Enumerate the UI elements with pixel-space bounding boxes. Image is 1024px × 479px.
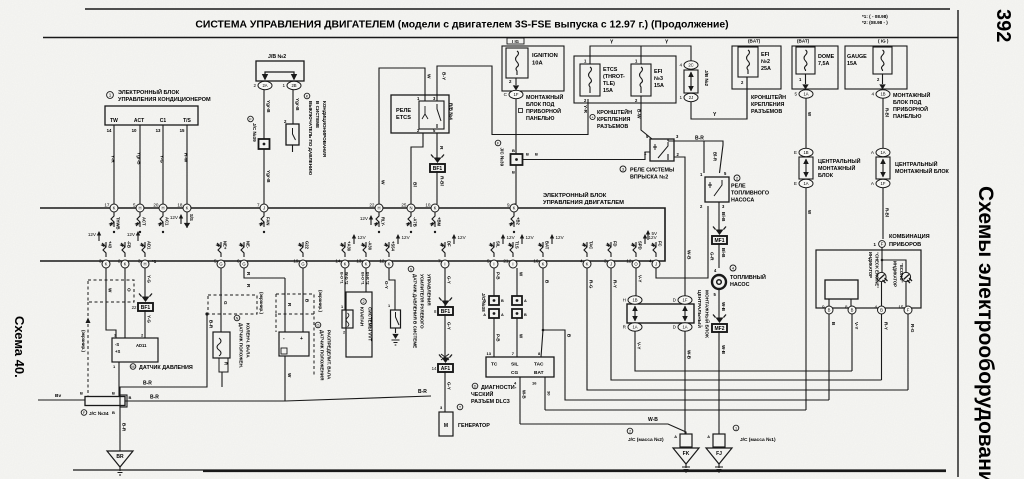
svg-text:BAT: BAT [534, 370, 544, 376]
IG tag [507, 38, 524, 44]
junction J/C No39 (left) [259, 139, 270, 149]
svg-text:J: J [263, 206, 265, 211]
svg-text:12V: 12V [526, 235, 535, 240]
svg-text:РЕЛЕ: РЕЛЕ [396, 108, 411, 114]
svg-text:1B: 1B [880, 92, 885, 97]
svg-text:A: A [524, 299, 527, 303]
svg-text:IGNITION: IGNITION [532, 53, 558, 59]
label J/C No39 (ignition) [495, 140, 501, 146]
svg-text:“ECONO”: “ECONO” [899, 263, 904, 283]
page top rule [85, 8, 950, 10]
svg-text:Y-G: Y-G [147, 315, 152, 323]
svg-text:8: 8 [845, 305, 848, 310]
A/C amplifier box [105, 106, 198, 125]
A/C amplifier label [107, 92, 114, 99]
DLC3 box [486, 357, 554, 377]
svg-text:B-R: B-R [695, 136, 704, 142]
svg-text:Ygr-B: Ygr-B [266, 170, 271, 183]
shield box crank sensor [208, 295, 257, 314]
fusible link MF1 [712, 236, 727, 244]
svg-text:1: 1 [388, 304, 390, 308]
svg-text:БЛОК: БЛОК [818, 173, 834, 179]
svg-text:W-G *2: W-G *2 [345, 272, 349, 284]
wire P-B dlc [493, 268, 495, 296]
svg-text:СИСТЕМА УПРАВЛЕНИЯ ДВИГАТЕЛЕМ: СИСТЕМА УПРАВЛЕНИЯ ДВИГАТЕЛЕМ (модели с … [195, 20, 728, 31]
svg-text:J/C №39: J/C №39 [252, 123, 257, 142]
wire B-W relay2 out [674, 157, 685, 296]
svg-text:Y-R: Y-R [582, 105, 588, 114]
svg-text:УСИЛИТЕЛЯ РУЛЕВОГО: УСИЛИТЕЛЯ РУЛЕВОГО [420, 274, 425, 329]
svg-text:R/B №4: R/B №4 [449, 103, 454, 120]
ground (left B-R) [107, 451, 133, 467]
svg-text:TLE): TLE) [603, 81, 615, 87]
wire G-Y ps [389, 268, 395, 310]
connector 4(2C) [679, 61, 698, 69]
central block mid box [627, 304, 694, 323]
svg-text:BR: BR [116, 454, 124, 460]
connector 5(1A) [794, 90, 813, 98]
svg-text:НАСОСА: НАСОСА [731, 198, 754, 204]
svg-text:B: B [524, 313, 527, 317]
wire W-B ground run [520, 424, 686, 434]
label J/C No39 (left) [248, 116, 254, 122]
cluster pin 1F [879, 241, 886, 248]
svg-text:A: A [707, 435, 710, 439]
svg-text:2: 2 [253, 83, 256, 88]
svg-text:РАЗЪЕМОВ: РАЗЪЕМОВ [751, 109, 782, 115]
svg-text:B: B [880, 308, 883, 313]
cluster box [816, 250, 921, 308]
svg-text:1A: 1A [880, 150, 885, 155]
svg-text:C1: C1 [160, 118, 167, 124]
wire W-B pump 2 [718, 331, 720, 434]
svg-text:J: J [610, 262, 612, 267]
wire W dlc [516, 268, 518, 296]
crank sensor box [213, 332, 230, 358]
svg-text:ПАНЕЛЬЮ: ПАНЕЛЬЮ [526, 116, 555, 122]
svg-text:R-Y: R-Y [884, 322, 889, 330]
svg-text:(BAT): (BAT) [748, 39, 761, 44]
svg-text:ETCS: ETCS [603, 67, 618, 73]
svg-text:1F: 1F [683, 298, 688, 303]
bracket box GAUGE [845, 46, 907, 89]
wire W dome down [805, 98, 807, 150]
svg-text:РЕЛЕ: РЕЛЕ [731, 184, 746, 190]
svg-text:*1: ( - 08.98): *1: ( - 08.98) [862, 14, 888, 19]
svg-text:I IG: I IG [512, 39, 519, 44]
svg-text:G: G [301, 262, 304, 267]
cluster pin 4 [874, 305, 885, 315]
wire Y lower [691, 77, 747, 119]
ECU internal FC [652, 242, 656, 257]
svg-text:1A: 1A [632, 325, 637, 330]
svg-text:№3: №3 [654, 76, 663, 82]
ECU internal G22 [299, 242, 303, 257]
svg-text:ТОПЛИВНОГО: ТОПЛИВНОГО [731, 191, 769, 197]
wire V-Y run [635, 268, 637, 296]
svg-text:(экранир.): (экранир.) [259, 292, 264, 314]
ECU pin 19G (bottom) [293, 259, 307, 269]
svg-text:Ygr-B: Ygr-B [266, 100, 271, 113]
svg-text:H: H [143, 262, 146, 267]
ECU internal BAT [539, 242, 543, 257]
ECU pin 5G (bottom) [214, 259, 225, 269]
connector A(1F) [871, 179, 890, 187]
wire Y-G [162, 125, 164, 204]
svg-text:G-Y: G-Y [384, 281, 389, 289]
svg-text:TW: TW [110, 118, 118, 124]
svg-text:392: 392 [992, 9, 1014, 42]
ECU pin 12O (bottom) [626, 259, 640, 269]
svg-text:В СИСТЕМЕ: В СИСТЕМЕ [315, 101, 320, 128]
fusible link MF2 [712, 324, 727, 332]
svg-text:2: 2 [362, 300, 364, 304]
svg-text:2B: 2B [291, 83, 296, 88]
ECU pin 14K (bottom) [335, 259, 349, 269]
ECU internal RLY [375, 212, 379, 227]
svg-text:*1: *1 [152, 259, 157, 264]
svg-text:ДИАГНОСТИ-: ДИАГНОСТИ- [481, 385, 517, 391]
svg-text:J/C (масса №1): J/C (масса №1) [740, 437, 776, 443]
svg-text:SPD: SPD [638, 241, 643, 250]
svg-text:2A: 2A [262, 83, 267, 88]
wire R-Bl gauge down [882, 98, 884, 150]
svg-text:ПРИБОРОВ: ПРИБОРОВ [889, 242, 921, 248]
wire V-Y cluster [851, 314, 853, 371]
svg-text:D: D [474, 385, 477, 389]
connector D(1F) mid [673, 296, 692, 304]
svg-text:G: G [223, 301, 228, 305]
label relay injection No2 [620, 166, 626, 172]
svg-text:W-B: W-B [721, 345, 726, 355]
svg-text:ПАНЕЛЬЮ: ПАНЕЛЬЮ [893, 114, 922, 120]
svg-text:ИНДИКАТОР: ИНДИКАТОР [893, 261, 898, 287]
svg-text:КРЕПЛЕНИЯ: КРЕПЛЕНИЯ [597, 117, 631, 123]
svg-text:ТОПЛИВНЫЙ: ТОПЛИВНЫЙ [730, 273, 766, 281]
svg-text:СИСТЕМЫ VVT: СИСТЕМЫ VVT [368, 307, 373, 341]
svg-text:КРОНШТЕЙН: КРОНШТЕЙН [751, 93, 786, 101]
svg-text:J/B №2: J/B №2 [268, 54, 286, 60]
svg-text:МОНТАЖНЫЙ БЛОК: МОНТАЖНЫЙ БЛОК [895, 167, 950, 175]
svg-text:M: M [444, 423, 448, 429]
ECU internal driver ACT [136, 212, 140, 227]
svg-text:RLY-: RLY- [381, 217, 386, 227]
svg-text:J/C №38: J/C №38 [481, 293, 486, 312]
svg-text:V-Y: V-Y [637, 342, 642, 349]
svg-text:B-O *1: B-O *1 [340, 272, 344, 284]
svg-text:R-Bl: R-Bl [439, 176, 445, 186]
svg-text:1B: 1B [803, 150, 808, 155]
indicator ECONO [901, 272, 910, 281]
svg-text:1: 1 [109, 93, 112, 98]
wire B cluster [828, 314, 830, 400]
ECU internal driver -A7B [407, 212, 411, 227]
wire B to injection relay [523, 152, 651, 160]
svg-text:4: 4 [874, 305, 877, 310]
ECU pin 5H (top) [133, 203, 144, 213]
svg-text:+S54: +S54 [391, 241, 396, 252]
wire B-R long [125, 400, 285, 402]
junction J/C No38 b [489, 309, 499, 318]
svg-text:15A: 15A [603, 88, 613, 94]
cluster wiring [882, 247, 906, 272]
svg-text:B-R: B-R [122, 423, 127, 432]
svg-text:РЕЛЕ СИСТЕМЫ: РЕЛЕ СИСТЕМЫ [630, 168, 674, 174]
svg-text:AD11: AD11 [136, 343, 147, 348]
wire Bl from relay pin2 [411, 133, 423, 204]
svg-text:G-Y: G-Y [447, 382, 452, 390]
svg-text:B-Y: B-Y [441, 72, 447, 81]
svg-text:19: 19 [293, 259, 299, 264]
svg-text:25A: 25A [761, 66, 771, 72]
ECU pin 3J (bottom) [604, 259, 615, 269]
ECU pin 12K (bottom) [379, 259, 393, 269]
wire Y-G sensor [144, 268, 146, 300]
svg-text:NE-: NE- [246, 241, 251, 249]
svg-text:EFI: EFI [761, 52, 770, 58]
cluster pin 9 [822, 305, 833, 315]
svg-text:ACT: ACT [142, 217, 147, 226]
svg-text:GAUGE: GAUGE [847, 54, 867, 60]
wire B-Y [437, 66, 588, 135]
svg-text:ACT: ACT [134, 118, 144, 124]
ground FK [673, 448, 699, 464]
svg-text:12V: 12V [458, 235, 467, 240]
fuse GAUGE 15A [873, 47, 892, 74]
wire Ygr-B to pin 7J [263, 149, 265, 204]
svg-text:РАСПРЕДЕЛИТ. ВАЛА: РАСПРЕДЕЛИТ. ВАЛА [327, 330, 332, 380]
right page border [957, 10, 959, 477]
svg-text:ДАТЧИК ДАВЛЕНИЯ В СИСТЕМЕ: ДАТЧИК ДАВЛЕНИЯ В СИСТЕМЕ [413, 274, 418, 348]
svg-text:AF1: AF1 [441, 366, 451, 372]
svg-text:ЭЛЕКТРОННЫЙ БЛОК: ЭЛЕКТРОННЫЙ БЛОК [543, 191, 607, 199]
svg-text:16: 16 [533, 259, 539, 264]
wire G-Y gen [444, 268, 446, 307]
ECU pin 21I (bottom) [503, 259, 517, 269]
junction bar J/C No34 [85, 397, 125, 406]
svg-text:B: B [112, 391, 115, 396]
svg-text:BF1: BF1 [441, 309, 451, 315]
central block connector left [799, 157, 813, 179]
svg-text:КОМБИНАЦИЯ: КОМБИНАЦИЯ [889, 234, 930, 240]
svg-text:B: B [112, 410, 115, 415]
svg-text:ПРИБОРНОЙ: ПРИБОРНОЙ [526, 107, 561, 115]
svg-text:9: 9 [507, 203, 510, 208]
fuse ETCS 15A [580, 64, 600, 96]
svg-text:K: K [124, 262, 127, 267]
svg-text:MF1: MF1 [715, 238, 725, 244]
svg-text:6: 6 [237, 259, 240, 264]
svg-text:B: B [80, 391, 83, 396]
mounting block box (ignition) [502, 46, 564, 91]
connector R(1A) mid [623, 323, 642, 331]
svg-text:B: B [512, 170, 515, 175]
svg-text:1F: 1F [514, 92, 519, 97]
svg-text:(экранир.): (экранир.) [81, 330, 86, 352]
svg-text:W-B: W-B [721, 302, 726, 312]
svg-text:F: F [907, 308, 910, 313]
fusible link AF1 [438, 364, 453, 372]
svg-text:W: W [108, 288, 113, 293]
bracket box EFI No2 [732, 46, 781, 89]
ECU internal driver +B2 [510, 212, 514, 227]
wire W dlc2 [516, 318, 518, 357]
junction J/C No38 c [512, 296, 522, 305]
svg-text:G: G [219, 262, 222, 267]
svg-text:K: K [388, 262, 391, 267]
svg-text:Bl-R *2: Bl-R *2 [366, 272, 370, 284]
connector D(1A) mid [673, 323, 692, 331]
central block mid arrow 1 [634, 306, 636, 321]
wire B-R upper [120, 314, 207, 397]
svg-text:НАСОС: НАСОС [730, 282, 750, 288]
wire B-O vvt [344, 268, 346, 310]
svg-text:H: H [138, 206, 141, 211]
connector A(1A) [871, 148, 890, 156]
svg-text:1: 1 [679, 95, 682, 100]
title underline rule [43, 37, 958, 39]
arrow DOME [805, 74, 807, 84]
svg-text:+B2: +B2 [516, 217, 521, 225]
svg-text:K: K [434, 206, 437, 211]
svg-text:R: R [224, 362, 229, 365]
svg-text:-A7B: -A7B [413, 217, 418, 227]
label VVT [361, 299, 367, 305]
svg-text:K: K [344, 262, 347, 267]
svg-text:МОНТАЖНЫЙ: МОНТАЖНЫЙ [893, 91, 930, 99]
junction dot crank [205, 312, 208, 315]
svg-text:I: I [444, 262, 445, 267]
ECU internal AD1 [141, 242, 145, 257]
pressure sensor box [112, 338, 158, 362]
connector H(1B) mid [623, 296, 642, 304]
svg-text:Bl: Bl [412, 182, 418, 187]
svg-text:S/S: S/S [189, 214, 194, 221]
svg-text:AC1: AC1 [165, 217, 170, 226]
svg-text:3: 3 [99, 259, 102, 264]
svg-text:ВЫКЛЮЧАТЕЛЬ ПО ДАВЛЕНИЮ: ВЫКЛЮЧАТЕЛЬ ПО ДАВЛЕНИЮ [308, 101, 313, 175]
svg-text:+43: +43 [108, 241, 113, 249]
svg-text:1: 1 [735, 427, 737, 431]
svg-text:P-B: P-B [496, 272, 501, 280]
wire Bl-B [718, 202, 720, 232]
ECU pin 25N (top) [401, 203, 415, 213]
svg-text:R-Y: R-Y [613, 280, 618, 288]
ECU pin 22H (top) [369, 203, 383, 213]
wire B ignition feed [515, 99, 517, 154]
svg-text:14: 14 [335, 259, 341, 264]
bottom page border [73, 469, 946, 471]
svg-text:M: M [131, 365, 134, 369]
svg-text:BF1: BF1 [433, 166, 443, 172]
ECU internal +A30 [341, 242, 345, 257]
svg-text:K: K [105, 262, 108, 267]
wire Bl-O vvt [365, 268, 367, 292]
svg-text:J/B №2: J/B №2 [704, 70, 709, 87]
wire R-Bl to cluster [882, 188, 884, 239]
crank sensor stub [219, 358, 228, 372]
cam sensor box [279, 332, 309, 356]
wire R-Y stair [611, 268, 882, 380]
svg-text:R-Bl: R-Bl [885, 108, 890, 117]
svg-text:№2: №2 [761, 59, 770, 65]
central block mid arrow 2 [684, 306, 686, 321]
central block connector right [876, 157, 890, 179]
svg-text:A: A [674, 435, 677, 439]
svg-text:G22: G22 [305, 241, 310, 250]
svg-text:12: 12 [626, 259, 632, 264]
svg-text:12V: 12V [360, 216, 369, 221]
label fuel pump [730, 265, 736, 271]
svg-text:2: 2 [118, 259, 121, 264]
PS sensor ground [395, 328, 397, 333]
label relay fuel pump [734, 175, 740, 181]
wire W dome stair [545, 409, 806, 411]
svg-text:( IG ): ( IG ) [878, 39, 889, 44]
wire W-B to ground FK [684, 331, 686, 434]
svg-text:T/S: T/S [183, 118, 191, 124]
svg-text:ЦЕНТРАЛЬНЫЙ: ЦЕНТРАЛЬНЫЙ [818, 157, 861, 165]
svg-text:“CHECK ENGINE”: “CHECK ENGINE” [875, 252, 880, 288]
ECU engine control unit box [40, 208, 665, 261]
label crank sensor [234, 315, 240, 321]
svg-text:BF1: BF1 [141, 305, 151, 311]
svg-text:2J: 2J [689, 95, 693, 100]
svg-text:K: K [186, 206, 189, 211]
svg-text:25: 25 [401, 203, 407, 208]
svg-text:Bv: Bv [55, 393, 61, 399]
svg-text:Bl-R: Bl-R [713, 152, 718, 162]
ECU pin 4J (bottom) [649, 259, 660, 269]
svg-text:12: 12 [379, 259, 385, 264]
svg-text:1B: 1B [632, 298, 637, 303]
svg-text:+S: +S [115, 349, 120, 354]
svg-text:14: 14 [107, 128, 112, 133]
svg-text:FC: FC [658, 241, 663, 247]
svg-text:РАЗЪЕМ DLC3: РАЗЪЕМ DLC3 [471, 399, 510, 405]
svg-text:TAC: TAC [589, 241, 594, 249]
wire P-B dlc2 [493, 318, 495, 357]
svg-text:A: A [501, 313, 504, 317]
svg-text:ЭЛЕКТРОННЫЙ БЛОК: ЭЛЕКТРОННЫЙ БЛОК [118, 88, 180, 96]
svg-text:7: 7 [257, 203, 260, 208]
svg-text:B: B [512, 148, 515, 153]
wire B to ECU pin 9K [515, 165, 517, 204]
svg-text:R-Bl: R-Bl [885, 208, 890, 217]
svg-text:W: W [287, 373, 292, 378]
ground connector FJ box [713, 434, 725, 447]
svg-text:G-Y: G-Y [447, 276, 452, 284]
svg-text:1A: 1A [682, 325, 687, 330]
svg-text:ЦЕНТРАЛЬНЫЙ: ЦЕНТРАЛЬНЫЙ [895, 160, 938, 168]
svg-text:КЛАПАН: КЛАПАН [360, 307, 365, 327]
wire Y branch EFI3 [640, 46, 642, 64]
wire O sensor [124, 268, 126, 338]
ECU pin 20H (top) [153, 203, 167, 213]
svg-text:18: 18 [177, 203, 183, 208]
ECU pin 17K (top) [104, 203, 118, 213]
indicator CHECK ENGINE [877, 272, 886, 281]
label J/C No34 [81, 410, 87, 416]
wire B cam [302, 268, 304, 332]
wire R-Bl [436, 171, 438, 204]
ECU internal driver THWB [110, 212, 114, 227]
svg-text:12V: 12V [402, 235, 411, 240]
fuse EFI No3 15A [631, 64, 651, 96]
ECU internal driver AC1 [159, 212, 163, 227]
svg-text:FAN: FAN [266, 217, 271, 225]
wire W dome long [805, 188, 807, 410]
